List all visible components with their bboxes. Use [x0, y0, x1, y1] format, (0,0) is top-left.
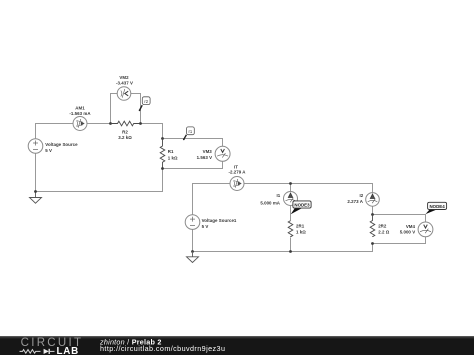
tag NODE3 [291, 201, 311, 214]
svg-text:2R2: 2R2 [378, 224, 387, 229]
svg-text:NODE4: NODE4 [430, 204, 446, 209]
svg-text:5.000 V: 5.000 V [400, 230, 416, 235]
ammeter I2 [366, 193, 380, 207]
svg-text:-1.563 mA: -1.563 mA [69, 111, 91, 116]
ground (circuit 1) [30, 192, 42, 204]
svg-text:http://circuitlab.com/cbuvdrn9: http://circuitlab.com/cbuvdrn9jez3u [100, 344, 225, 353]
wire I1 bottom to 2R1 [290, 205, 292, 220]
tag r2 [139, 97, 150, 111]
svg-text:R1: R1 [168, 149, 174, 154]
node 2R2 bottom [371, 242, 374, 245]
wire R2 right to R1 top node [141, 124, 163, 139]
wire R1 bottom down to ground rail back to V1 [36, 153, 163, 192]
svg-text:I1: I1 [277, 193, 281, 198]
svg-text:R2: R2 [122, 129, 128, 134]
wire node right and down to VM4 top [373, 215, 426, 223]
wire IT left to V2 top [193, 184, 231, 216]
node I2 bottom [371, 213, 374, 216]
svg-text:VM2: VM2 [119, 75, 129, 80]
wire I2 bottom to NODE4 node [372, 206, 374, 214]
svg-text:-2.279 A: -2.279 A [228, 170, 246, 175]
svg-text:3.2 kΩ: 3.2 kΩ [118, 135, 132, 140]
resistor 2R2 [370, 215, 375, 237]
node V2-ground junction [191, 250, 194, 253]
voltmeter VM3 [215, 146, 230, 161]
wire IT right along top rail down to I2 [244, 184, 373, 193]
wire V2 bottom to rail [192, 229, 194, 251]
voltage source V1 [28, 139, 43, 154]
wire VM2 right lead drop [131, 94, 141, 124]
svg-text:NODE3: NODE3 [294, 203, 310, 208]
wire R1 top to VM3 top [163, 139, 223, 147]
wire 2R1 bottom to rail [290, 238, 292, 252]
svg-text:2R1: 2R1 [296, 224, 305, 229]
logo resistor zigzag [20, 350, 41, 354]
svg-text:Voltage Source1: Voltage Source1 [202, 218, 237, 223]
wire AM1 right to R2 left node [87, 123, 111, 125]
svg-text:I2: I2 [360, 193, 364, 198]
bottom rail [193, 244, 373, 252]
resistor 2R1 [288, 221, 293, 237]
node V1-ground junction [34, 190, 37, 193]
node R2 right [139, 122, 142, 125]
resistor R2 [111, 121, 141, 126]
ammeter AM1 [73, 117, 87, 131]
svg-text:2.273 A: 2.273 A [347, 199, 363, 204]
svg-text:5 V: 5 V [202, 224, 209, 229]
svg-text:5 V: 5 V [45, 148, 52, 153]
node R1 bottom [161, 167, 164, 170]
wire VM2 left lead drop [111, 94, 118, 124]
svg-text:Voltage Source: Voltage Source [45, 142, 78, 147]
voltage source V2 [185, 215, 200, 230]
svg-text:VM4: VM4 [406, 224, 416, 229]
wire 2R2 bottom node right to VM4 bottom [373, 237, 426, 244]
svg-text:1.563 V: 1.563 V [197, 155, 213, 160]
ground (circuit 2) [187, 252, 199, 263]
voltmeter VM4 [418, 222, 433, 237]
node I1 top [289, 182, 292, 185]
resistor R1 [160, 139, 165, 169]
svg-text:r2: r2 [144, 99, 148, 104]
wire R1 bottom to VM3 bottom [163, 161, 223, 169]
wire V1 top up to rail and right to AM1 [36, 124, 74, 140]
node 2R1 bottom [289, 250, 292, 253]
ammeter IT [230, 177, 244, 191]
svg-text:r1: r1 [189, 129, 193, 134]
svg-text:AM1: AM1 [75, 105, 85, 110]
svg-text:1 kΩ: 1 kΩ [296, 229, 306, 234]
tag NODE4 [426, 202, 447, 214]
svg-text:-3.437 V: -3.437 V [116, 80, 133, 85]
svg-text:5.000 mA: 5.000 mA [260, 200, 280, 205]
wire I1 tap from top rail [290, 184, 292, 192]
tag r1 [183, 127, 194, 140]
ammeter I1 [284, 192, 298, 206]
svg-text:1 kΩ: 1 kΩ [168, 155, 178, 160]
logo diode [44, 349, 55, 354]
voltmeter VM2 [117, 87, 131, 101]
footer bar [0, 336, 474, 355]
svg-text:LAB: LAB [57, 346, 80, 355]
svg-text:VM3: VM3 [203, 149, 213, 154]
svg-text:2.2 Ω: 2.2 Ω [378, 229, 390, 234]
node R1 top [161, 137, 164, 140]
node R2 left [109, 122, 112, 125]
